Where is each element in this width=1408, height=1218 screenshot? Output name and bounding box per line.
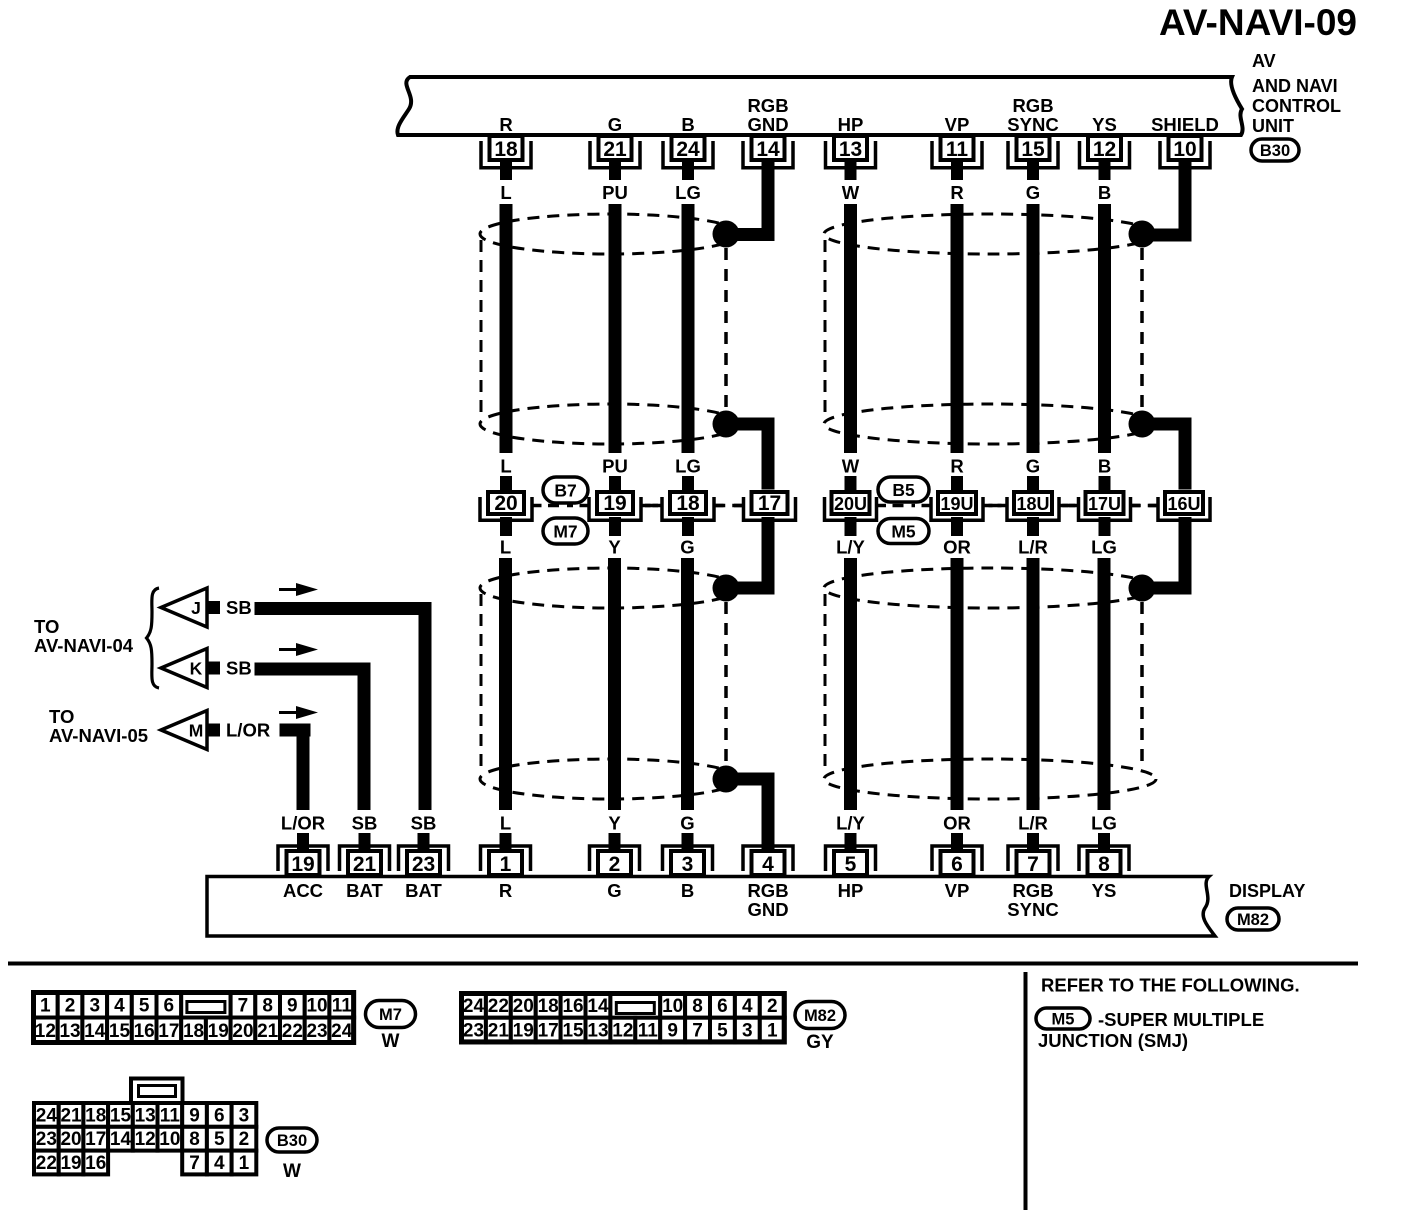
arrow symbol (K wire direction)	[279, 648, 297, 651]
svg-text:R: R	[499, 114, 512, 135]
svg-text:L: L	[500, 182, 511, 203]
svg-text:L/Y: L/Y	[836, 813, 865, 834]
svg-text:M: M	[189, 721, 204, 741]
svg-text:BAT: BAT	[346, 880, 383, 901]
svg-text:19: 19	[603, 492, 626, 515]
svg-text:21: 21	[257, 1021, 279, 1042]
svg-text:OR: OR	[943, 813, 971, 834]
connector box B30 (AV AND NAVI CONTROL UNIT)	[397, 77, 1242, 135]
svg-text:Y: Y	[608, 537, 621, 558]
shield drain dashed line (lower right)	[1140, 602, 1144, 770]
svg-text:11: 11	[946, 138, 969, 161]
svg-text:7: 7	[189, 1153, 200, 1174]
svg-text:B7: B7	[554, 480, 576, 500]
svg-text:20: 20	[232, 1021, 253, 1042]
svg-text:M7: M7	[379, 1006, 402, 1024]
connector designator M7	[366, 1001, 416, 1028]
pin 7 (RGB SYNC) of M82 DISPLAY	[1027, 833, 1039, 850]
SMJ designator M7	[543, 518, 588, 544]
svg-text:21: 21	[60, 1105, 82, 1126]
svg-text:20: 20	[513, 996, 534, 1017]
svg-text:HP: HP	[838, 880, 864, 901]
svg-text:21: 21	[353, 853, 377, 876]
svg-text:SYNC: SYNC	[1007, 899, 1058, 920]
svg-text:13: 13	[59, 1021, 80, 1042]
svg-text:GND: GND	[747, 899, 788, 920]
svg-text:23: 23	[412, 853, 435, 876]
svg-text:14: 14	[84, 1021, 106, 1042]
svg-text:5: 5	[214, 1129, 225, 1150]
svg-text:VP: VP	[945, 114, 970, 135]
junction dot B (shield to SMJ 17)	[713, 411, 740, 438]
SMJ dashed link 615-688	[641, 504, 651, 508]
svg-text:SB: SB	[226, 658, 252, 679]
svg-text:1: 1	[500, 853, 512, 876]
connector face view M82 (24-pin)	[461, 993, 486, 1018]
svg-text:YS: YS	[1092, 114, 1117, 135]
svg-text:10: 10	[306, 995, 327, 1016]
SMJ dashed link 1104.5-1184	[1131, 504, 1141, 508]
svg-text:G: G	[680, 537, 694, 558]
svg-text:B: B	[1098, 456, 1111, 477]
svg-text:L/R: L/R	[1018, 537, 1048, 558]
svg-text:20U: 20U	[834, 494, 867, 514]
svg-text:21: 21	[488, 1021, 510, 1042]
svg-text:3: 3	[742, 1021, 753, 1042]
svg-text:16: 16	[85, 1153, 106, 1174]
svg-text:RGB: RGB	[747, 95, 788, 116]
svg-text:10: 10	[1173, 138, 1196, 161]
svg-text:TO: TO	[34, 616, 59, 637]
svg-text:2: 2	[609, 853, 621, 876]
junction dot A (shield to pin 14)	[713, 221, 740, 248]
svg-text:6: 6	[717, 996, 728, 1017]
svg-text:TO: TO	[49, 706, 74, 727]
svg-text:L: L	[500, 537, 511, 558]
svg-text:G: G	[1026, 182, 1040, 203]
svg-text:14: 14	[587, 996, 609, 1017]
shield (lower left cable)	[480, 568, 740, 608]
separator line horizontal	[8, 962, 1358, 966]
svg-text:20: 20	[60, 1129, 81, 1150]
svg-text:SHIELD: SHIELD	[1151, 114, 1219, 135]
svg-text:22: 22	[488, 996, 509, 1017]
svg-text:LG: LG	[1091, 537, 1117, 558]
arrow symbol (J wire direction)	[279, 588, 297, 591]
svg-text:LG: LG	[675, 182, 701, 203]
svg-text:HP: HP	[838, 114, 864, 135]
svg-text:23: 23	[463, 1021, 484, 1042]
svg-text:12: 12	[612, 1021, 633, 1042]
svg-text:14: 14	[756, 138, 780, 161]
connector box M82 (DISPLAY)	[207, 877, 1215, 937]
svg-text:19: 19	[291, 853, 314, 876]
svg-text:7: 7	[238, 995, 249, 1016]
svg-text:4: 4	[762, 853, 774, 876]
svg-text:11: 11	[638, 1021, 659, 1042]
svg-text:20: 20	[494, 492, 517, 515]
svg-text:15: 15	[1021, 138, 1045, 161]
SMJ terminal 20U	[825, 497, 877, 520]
svg-text:-SUPER MULTIPLE: -SUPER MULTIPLE	[1098, 1009, 1264, 1030]
SMJ terminal 16U (shield drain)	[1158, 497, 1210, 520]
svg-text:G: G	[607, 880, 621, 901]
pin 5 (HP) of M82 DISPLAY	[845, 833, 857, 850]
note designator M5	[1036, 1008, 1090, 1029]
SMJ dashed link 688-769.5	[714, 504, 724, 508]
svg-text:9: 9	[287, 995, 298, 1016]
SMJ dashed link 506-615	[532, 504, 542, 508]
svg-text:G: G	[608, 114, 622, 135]
svg-text:18U: 18U	[1016, 494, 1049, 514]
svg-text:W: W	[842, 456, 860, 477]
svg-text:7: 7	[1027, 853, 1039, 876]
svg-text:M5: M5	[891, 521, 916, 541]
svg-text:B30: B30	[1260, 142, 1290, 160]
svg-text:B: B	[681, 880, 694, 901]
junction dot F (shield to SMJ 16U)	[1129, 411, 1156, 438]
svg-text:19: 19	[208, 1021, 229, 1042]
svg-text:6: 6	[951, 853, 963, 876]
svg-text:22: 22	[282, 1021, 303, 1042]
svg-text:L/R: L/R	[1018, 813, 1048, 834]
svg-text:LG: LG	[1091, 813, 1117, 834]
svg-text:ACC: ACC	[283, 880, 323, 901]
svg-text:SYNC: SYNC	[1007, 114, 1058, 135]
connector M (to AV-NAVI-05)	[161, 711, 207, 750]
svg-text:L/OR: L/OR	[226, 720, 270, 741]
svg-text:L: L	[500, 456, 511, 477]
wire shield drain into SMJ 16U	[1142, 418, 1192, 431]
svg-text:VP: VP	[945, 880, 970, 901]
svg-text:K: K	[190, 659, 203, 679]
svg-text:R: R	[950, 456, 963, 477]
shield (lower right cable)	[824, 568, 1156, 608]
svg-text:W: W	[283, 1161, 301, 1182]
svg-text:8: 8	[692, 996, 703, 1017]
connector designator B30 (face view)	[267, 1128, 317, 1152]
svg-text:B: B	[681, 114, 694, 135]
svg-text:PU: PU	[602, 456, 628, 477]
pin 6 (VP) of M82 DISPLAY	[951, 833, 963, 850]
svg-text:REFER TO THE FOLLOWING.: REFER TO THE FOLLOWING.	[1041, 975, 1300, 996]
pin 8 (YS) of M82 DISPLAY	[1098, 833, 1110, 850]
svg-text:8: 8	[189, 1129, 200, 1150]
svg-text:2: 2	[767, 996, 778, 1017]
connector J (to AV-NAVI-04)	[161, 588, 207, 627]
svg-text:M82: M82	[1237, 911, 1269, 929]
svg-text:AV-NAVI-05: AV-NAVI-05	[49, 725, 148, 746]
svg-text:RGB: RGB	[1012, 880, 1053, 901]
svg-text:AV-NAVI-04: AV-NAVI-04	[34, 635, 134, 656]
pin 23 (BAT) of M82 DISPLAY	[418, 833, 430, 850]
svg-text:18: 18	[183, 1021, 204, 1042]
pin 4 (RGB GND) of M82 DISPLAY	[762, 833, 774, 850]
wire shield drain into SMJ 17	[726, 418, 775, 431]
svg-text:RGB: RGB	[1012, 95, 1053, 116]
svg-text:11: 11	[332, 995, 353, 1016]
svg-text:15: 15	[562, 1021, 584, 1042]
svg-text:SB: SB	[226, 597, 252, 618]
separator line vertical	[1024, 972, 1028, 1210]
svg-text:15: 15	[109, 1021, 131, 1042]
svg-text:R: R	[499, 880, 512, 901]
svg-text:YS: YS	[1092, 880, 1117, 901]
svg-text:W: W	[382, 1031, 400, 1052]
svg-text:3: 3	[239, 1105, 250, 1126]
svg-text:22: 22	[36, 1153, 57, 1174]
svg-text:M5: M5	[1052, 1010, 1075, 1028]
svg-text:4: 4	[214, 1153, 225, 1174]
svg-text:6: 6	[164, 995, 175, 1016]
svg-text:12: 12	[35, 1021, 56, 1042]
junction dot D (shield to pin 4)	[713, 766, 740, 793]
wire shield drain out of SMJ 17	[762, 517, 775, 595]
svg-text:GND: GND	[747, 114, 788, 135]
brace TO AV-NAVI-04	[147, 588, 160, 688]
svg-text:7: 7	[692, 1021, 703, 1042]
svg-text:M7: M7	[553, 521, 577, 541]
wire SHIELD drain from B30 pin 10	[1179, 162, 1192, 242]
pin 2 (G) of M82 DISPLAY	[609, 833, 621, 850]
svg-text:PU: PU	[602, 182, 628, 203]
pin 19 (ACC) of M82 DISPLAY	[297, 833, 309, 850]
svg-text:18: 18	[676, 492, 700, 515]
svg-text:17U: 17U	[1088, 494, 1121, 514]
svg-text:B5: B5	[892, 480, 915, 500]
svg-text:SB: SB	[352, 813, 378, 834]
svg-text:12: 12	[1093, 138, 1116, 161]
connector face view M7 (24-pin)	[33, 992, 58, 1018]
svg-text:UNIT: UNIT	[1252, 116, 1294, 136]
svg-text:5: 5	[717, 1021, 728, 1042]
SMJ terminal 20	[480, 497, 532, 520]
svg-text:OR: OR	[943, 537, 971, 558]
svg-text:AV-NAVI-09: AV-NAVI-09	[1159, 2, 1357, 43]
SMJ dashed link 1033-1104.5	[1059, 504, 1069, 508]
junction dot C (shield to SMJ 17)	[713, 575, 740, 602]
pin 3 (B) of M82 DISPLAY	[682, 833, 694, 850]
pin 21 (BAT) of M82 DISPLAY	[359, 833, 371, 850]
svg-text:JUNCTION (SMJ): JUNCTION (SMJ)	[1038, 1030, 1188, 1051]
svg-text:AV: AV	[1252, 51, 1276, 71]
svg-text:R: R	[950, 182, 963, 203]
connector face view B30 (24-pin) with latch	[131, 1079, 183, 1105]
svg-text:BAT: BAT	[405, 880, 442, 901]
svg-text:1: 1	[767, 1021, 778, 1042]
SMJ designator B7	[543, 477, 588, 503]
svg-text:5: 5	[139, 995, 150, 1016]
arrow symbol (M wire direction)	[279, 711, 297, 714]
svg-text:24: 24	[463, 996, 485, 1017]
svg-text:L: L	[500, 813, 511, 834]
svg-text:13: 13	[587, 1021, 608, 1042]
svg-text:L/Y: L/Y	[836, 537, 865, 558]
shield drain dashed line (upper right)	[1140, 248, 1144, 410]
svg-text:G: G	[1026, 456, 1040, 477]
svg-text:11: 11	[160, 1105, 181, 1126]
svg-text:19U: 19U	[940, 494, 973, 514]
svg-text:RGB: RGB	[747, 880, 788, 901]
svg-text:CONTROL: CONTROL	[1252, 96, 1341, 116]
svg-text:24: 24	[676, 138, 700, 161]
svg-text:3: 3	[682, 853, 694, 876]
svg-text:19: 19	[60, 1153, 81, 1174]
connector designator B30	[1251, 139, 1299, 161]
svg-text:9: 9	[189, 1105, 200, 1126]
SMJ terminal 18	[662, 497, 714, 520]
svg-text:L/OR: L/OR	[281, 813, 325, 834]
pin 1 (R) of M82 DISPLAY	[500, 833, 512, 850]
svg-text:1: 1	[40, 995, 51, 1016]
svg-text:12: 12	[135, 1129, 156, 1150]
SMJ terminal 18U	[1007, 497, 1059, 520]
svg-text:B: B	[1098, 182, 1111, 203]
SMJ terminal 17 (shield drain)	[744, 497, 796, 520]
svg-text:10: 10	[662, 996, 683, 1017]
svg-text:6: 6	[214, 1105, 225, 1126]
svg-text:16: 16	[134, 1021, 155, 1042]
svg-text:M82: M82	[804, 1007, 836, 1025]
svg-text:17: 17	[85, 1129, 106, 1150]
wire L/OR from M to DISPLAY pin 19	[280, 724, 311, 737]
wire SB from J to DISPLAY pin 23	[255, 602, 432, 615]
wire SB from K to DISPLAY pin 21	[255, 663, 371, 676]
svg-text:5: 5	[845, 853, 857, 876]
wire RGB GND shield drain from B30 pin 14	[762, 162, 775, 241]
connector designator M82	[795, 1002, 845, 1029]
svg-text:1: 1	[239, 1153, 250, 1174]
svg-text:SB: SB	[411, 813, 437, 834]
junction dot E (shield to pin 10)	[1129, 221, 1156, 248]
SMJ dashed link 957-1033	[983, 504, 993, 508]
svg-text:17: 17	[158, 1021, 179, 1042]
svg-text:2: 2	[239, 1129, 250, 1150]
svg-text:18: 18	[85, 1105, 106, 1126]
wire shield drain dot D to DISPLAY pin 4	[726, 773, 775, 786]
svg-text:4: 4	[114, 995, 125, 1016]
svg-text:B30: B30	[277, 1132, 307, 1150]
SMJ terminal 19	[589, 497, 641, 520]
svg-text:W: W	[842, 182, 860, 203]
svg-text:DISPLAY: DISPLAY	[1229, 881, 1305, 901]
SMJ terminal 17U	[1079, 497, 1131, 520]
svg-text:14: 14	[110, 1129, 132, 1150]
SMJ designator B5	[878, 477, 929, 502]
svg-text:J: J	[191, 598, 201, 618]
svg-text:AND NAVI: AND NAVI	[1252, 76, 1338, 96]
svg-text:13: 13	[135, 1105, 156, 1126]
shield (upper left cable)	[480, 214, 740, 254]
svg-text:Y: Y	[608, 813, 621, 834]
svg-text:13: 13	[839, 138, 862, 161]
SMJ designator M5	[878, 519, 929, 544]
svg-text:16: 16	[562, 996, 583, 1017]
svg-text:16U: 16U	[1167, 494, 1200, 514]
svg-text:4: 4	[742, 996, 753, 1017]
svg-text:8: 8	[1098, 853, 1110, 876]
SMJ dashed link 850.5-957	[877, 504, 887, 508]
svg-text:GY: GY	[806, 1032, 834, 1053]
svg-text:9: 9	[667, 1021, 678, 1042]
svg-text:19: 19	[513, 1021, 534, 1042]
connector designator M82	[1227, 908, 1279, 930]
svg-text:24: 24	[331, 1021, 353, 1042]
svg-text:G: G	[680, 813, 694, 834]
svg-text:23: 23	[306, 1021, 327, 1042]
shield drain dashed line (upper left)	[724, 248, 728, 410]
svg-text:18: 18	[494, 138, 518, 161]
wire shield drain out of SMJ 16U	[1179, 517, 1192, 595]
svg-text:24: 24	[36, 1105, 58, 1126]
shield drain dashed line (lower left)	[724, 602, 728, 765]
shield (upper right cable)	[824, 214, 1156, 254]
svg-text:8: 8	[262, 995, 273, 1016]
svg-text:18: 18	[538, 996, 559, 1017]
svg-text:15: 15	[110, 1105, 132, 1126]
svg-text:LG: LG	[675, 456, 701, 477]
svg-text:3: 3	[89, 995, 100, 1016]
svg-text:17: 17	[758, 492, 781, 515]
SMJ terminal 19U	[931, 497, 983, 520]
svg-text:21: 21	[603, 138, 627, 161]
svg-text:17: 17	[538, 1021, 559, 1042]
svg-text:23: 23	[36, 1129, 57, 1150]
svg-text:2: 2	[65, 995, 76, 1016]
connector K (to AV-NAVI-04)	[161, 649, 207, 688]
junction dot G (shield to SMJ 16U)	[1129, 575, 1156, 602]
svg-text:10: 10	[159, 1129, 180, 1150]
